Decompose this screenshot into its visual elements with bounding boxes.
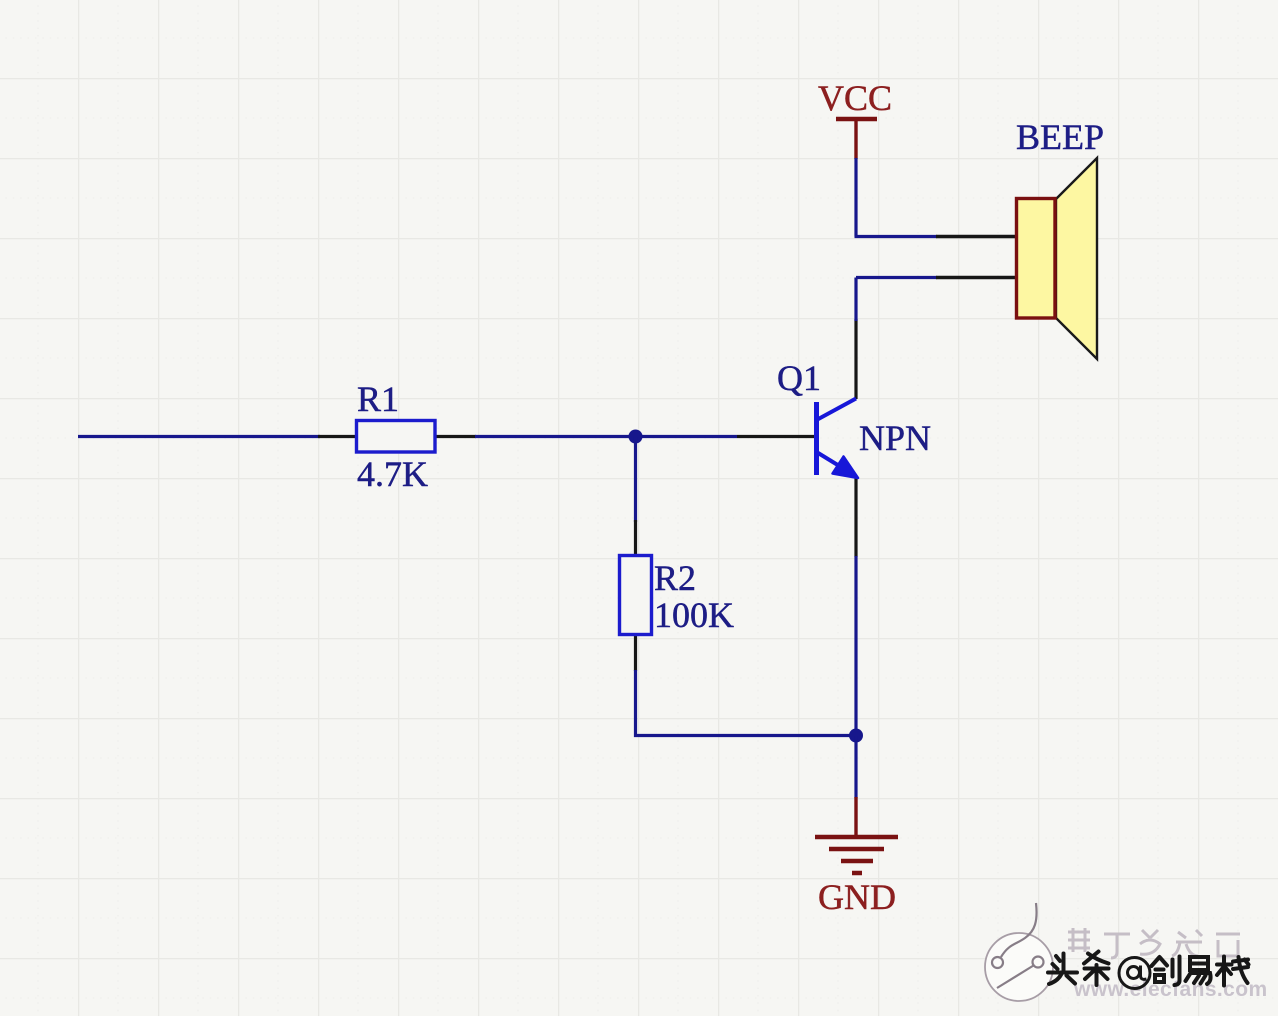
svg-text:NPN: NPN xyxy=(859,418,931,458)
wire input net to R1 xyxy=(78,435,320,438)
buzzer BEEP xyxy=(936,158,1097,359)
label R1 xyxy=(357,379,399,419)
svg-text:BEEP: BEEP xyxy=(1016,117,1104,157)
transistor Q1 xyxy=(737,319,858,557)
svg-text:R2: R2 xyxy=(654,558,696,598)
wire ground node to GND xyxy=(854,736,857,799)
wire R1 to Q1 base xyxy=(475,435,737,438)
junction node emitter/ground xyxy=(849,729,863,743)
svg-text:Q1: Q1 xyxy=(777,358,821,398)
wire VCC to speaker pin 1 xyxy=(855,158,938,237)
wire R2 to ground node xyxy=(636,670,857,736)
resistor R2 xyxy=(620,520,652,671)
watermark (decorative, unlabeled) xyxy=(985,903,1268,1001)
svg-text:VCC: VCC xyxy=(818,78,892,118)
svg-text:4.7K: 4.7K xyxy=(357,454,428,494)
wire junction to R2 xyxy=(634,437,637,523)
junction node base/R2 xyxy=(629,430,643,444)
svg-text:R1: R1 xyxy=(357,379,399,419)
label Q1 xyxy=(777,358,821,398)
ground GND xyxy=(815,797,898,917)
wire speaker pin 2 to Q1 collector xyxy=(856,278,937,322)
resistor R1 xyxy=(318,421,476,453)
svg-text:GND: GND xyxy=(818,877,896,917)
value 4.7K xyxy=(357,454,428,494)
label R2 xyxy=(654,558,696,598)
svg-text:100K: 100K xyxy=(654,595,734,635)
value 100K xyxy=(654,595,734,635)
label NPN xyxy=(859,418,931,458)
label BEEP xyxy=(1016,117,1104,157)
wire Q1 emitter to ground node xyxy=(854,556,857,736)
power VCC xyxy=(818,78,892,159)
svg-text:www.elecfans.com: www.elecfans.com xyxy=(1073,978,1268,1001)
